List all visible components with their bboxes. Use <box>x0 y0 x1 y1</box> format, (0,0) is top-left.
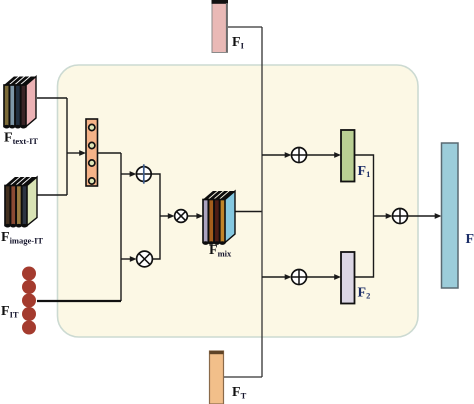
wire F1 F2 join bracket <box>355 155 374 277</box>
wire mid vertical bus <box>120 153 122 301</box>
feature stack F_text-IT <box>4 77 36 129</box>
arrowhead into F2 <box>334 274 341 280</box>
adder bottom-right <box>292 270 307 285</box>
module box (rounded cream panel) <box>58 65 419 337</box>
F1 block <box>341 130 355 182</box>
arrowhead into Fmix <box>196 213 203 219</box>
wire adder left output <box>151 174 160 259</box>
concat block <box>86 119 98 186</box>
wire stack1 to bus <box>37 97 67 99</box>
concat circle 2 <box>89 142 95 148</box>
feature stack F_mix <box>203 191 235 245</box>
multiplier mid (circle-times) <box>175 210 188 223</box>
wire junction to multiplier mid <box>160 215 169 217</box>
wire Fmix to main bus <box>236 211 263 213</box>
wire to multiplier left <box>121 258 131 260</box>
feature stack F_image-IT <box>5 177 37 228</box>
concat circle 1 <box>89 124 95 130</box>
arrowhead into adder far-right <box>386 213 393 219</box>
wire stack2 to bus <box>37 194 67 196</box>
multiplier left (circle-times) <box>137 251 153 267</box>
svg-text:F: F <box>466 232 474 247</box>
arrowhead into adder top-right <box>285 152 292 158</box>
wire bus to adder top-right <box>262 154 286 156</box>
arrowhead into multiplier left <box>130 256 137 262</box>
wire to adder left <box>121 173 131 175</box>
F output bar <box>442 143 459 288</box>
arrowhead into multiplier mid <box>168 213 175 219</box>
wire bracket to adder far-right <box>374 215 388 217</box>
wire concat output <box>98 152 122 154</box>
wire left input bus <box>66 98 68 195</box>
arrowhead into F1 <box>334 152 341 158</box>
wire adder far-right to F <box>408 215 437 217</box>
wire main vertical bus <box>261 27 263 377</box>
adder left (circle-plus with blue vertical) <box>136 164 151 183</box>
F2 block <box>341 252 355 304</box>
arrowhead into F <box>435 213 442 219</box>
F_T bar (bottom) <box>210 351 224 404</box>
F_IT dot column <box>22 267 36 335</box>
wire bus to adder bottom-right <box>262 276 286 278</box>
adder far-right <box>393 209 408 224</box>
arrowhead into concat <box>79 150 86 156</box>
wire F_IT thick line <box>37 300 121 302</box>
concat circle 3 <box>89 160 95 166</box>
wire F_I to main bus <box>228 26 263 28</box>
arrowhead into adder left <box>130 171 137 177</box>
wire multiplier mid to Fmix <box>187 215 197 217</box>
F_I bar (top) <box>212 0 229 53</box>
wire adder bottom-right to F2 <box>307 276 336 278</box>
wire bus to concat <box>67 152 80 154</box>
arrowhead into adder bottom-right <box>285 274 292 280</box>
adder top-right <box>292 148 307 163</box>
concat circle 4 <box>89 178 95 184</box>
wire F_T to main bus <box>224 376 263 378</box>
wire adder top-right to F1 <box>307 154 336 156</box>
